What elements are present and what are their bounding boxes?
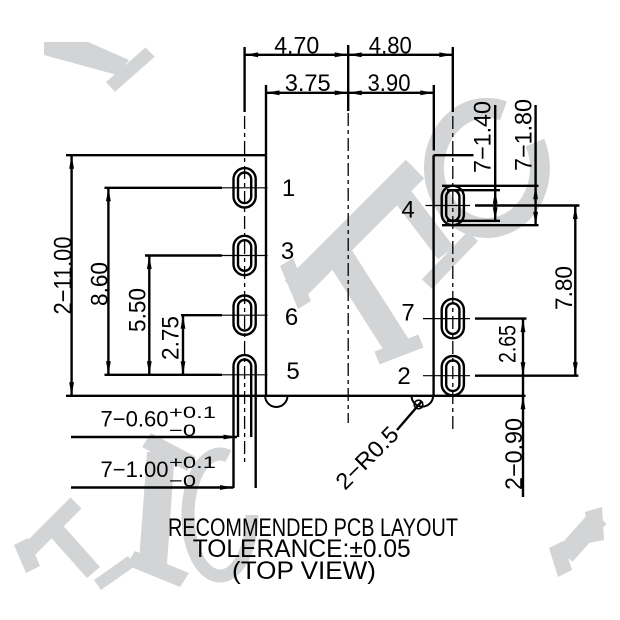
- svg-text:−0: −0: [169, 472, 196, 491]
- svg-text:7−0.60: 7−0.60: [101, 406, 169, 431]
- svg-text:+0.1: +0.1: [169, 453, 216, 472]
- svg-text:2−0.90: 2−0.90: [501, 418, 528, 490]
- svg-text:5: 5: [286, 358, 299, 385]
- svg-text:7−1.80: 7−1.80: [511, 99, 538, 171]
- svg-text:2: 2: [397, 363, 410, 390]
- svg-text:2.65: 2.65: [495, 325, 522, 363]
- svg-text:+0.1: +0.1: [169, 403, 216, 422]
- svg-text:2−11.00: 2−11.00: [49, 237, 77, 315]
- svg-text:4.70: 4.70: [274, 32, 319, 59]
- svg-text:7: 7: [401, 299, 414, 326]
- svg-text:4.80: 4.80: [369, 32, 412, 59]
- svg-text:2.75: 2.75: [158, 316, 185, 360]
- svg-text:7−1.40: 7−1.40: [470, 101, 497, 173]
- svg-text:1: 1: [282, 175, 295, 202]
- svg-text:3.75: 3.75: [285, 70, 331, 97]
- svg-text:7.80: 7.80: [551, 266, 578, 310]
- svg-text:3.90: 3.90: [368, 70, 411, 97]
- svg-text:(TOP VIEW): (TOP VIEW): [232, 557, 376, 585]
- svg-text:8.60: 8.60: [87, 262, 114, 306]
- svg-text:6: 6: [285, 304, 298, 331]
- svg-text:5.50: 5.50: [125, 288, 152, 332]
- svg-text:7−1.00: 7−1.00: [101, 457, 169, 482]
- svg-text:4: 4: [401, 196, 414, 223]
- svg-text:−0: −0: [169, 421, 196, 440]
- svg-text:3: 3: [281, 238, 294, 265]
